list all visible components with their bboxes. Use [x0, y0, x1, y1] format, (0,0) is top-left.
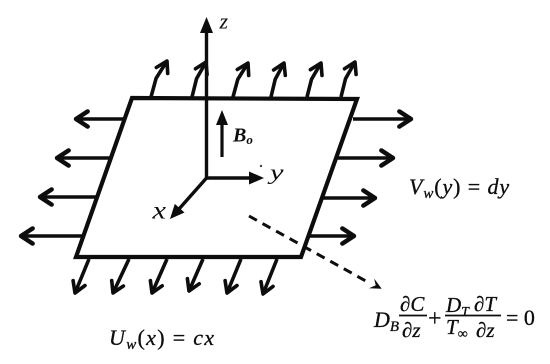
Bo arrow [220, 122, 223, 157]
svg-text:= 0: = 0 [506, 305, 535, 330]
z axis [205, 31, 208, 178]
stray dot [260, 165, 262, 167]
left arrow 4 [24, 234, 84, 237]
svg-text:y: y [267, 160, 284, 185]
left arrow 3 [43, 195, 97, 198]
top arrow 6 [341, 62, 355, 97]
bottom arrow 5 [227, 259, 241, 293]
svg-text:z: z [219, 9, 229, 34]
svg-text:∂T: ∂T [474, 292, 497, 316]
left arrow 1 [79, 117, 125, 120]
right arrow 3 [321, 196, 372, 199]
dashed arrow [249, 216, 370, 283]
equation DB dC/dz + DT/Tinf dT/dz = 0 [373, 292, 535, 342]
top arrow 5 [307, 63, 321, 97]
bottom arrow 3 [152, 259, 167, 293]
bottom arrow 6 [263, 259, 277, 294]
top arrow 3 [233, 63, 248, 97]
top arrow 2 [192, 62, 206, 97]
svg-text:∂z: ∂z [402, 318, 421, 342]
right arrow 4 [306, 234, 351, 237]
x axis [179, 178, 207, 209]
stretching sheet (parallelogram) [76, 98, 357, 257]
svg-text:Uw(x) = cx: Uw(x) = cx [109, 325, 215, 353]
svg-text:x: x [151, 198, 166, 225]
svg-text:+: + [428, 306, 442, 332]
right arrow 1 [353, 117, 408, 120]
bottom arrow 4 [189, 259, 203, 291]
bottom arrow 2 [113, 259, 129, 293]
bottom arrow 1 [75, 259, 89, 293]
right arrow 2 [336, 156, 390, 159]
svg-text:∂C: ∂C [400, 292, 425, 316]
top arrow 4 [271, 63, 284, 97]
svg-text:∂z: ∂z [476, 318, 495, 342]
y axis [207, 176, 253, 179]
left arrow 2 [60, 156, 111, 159]
top arrow 1 [151, 61, 167, 97]
